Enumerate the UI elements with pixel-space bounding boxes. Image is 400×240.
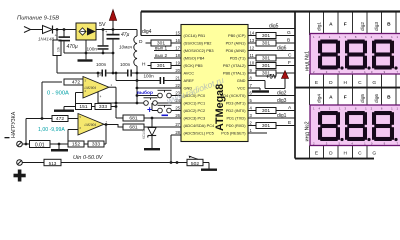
capacitor C1 470µ [63, 30, 65, 37]
button SB1 выбор [137, 95, 158, 97]
op-amp DA2.2 LM358 [78, 114, 104, 136]
wire Uin long [61, 162, 187, 164]
button SB2 plus [98, 102, 144, 104]
svg-text:H: H [142, 62, 146, 68]
button SB3 minus [151, 103, 153, 111]
svg-text:инд №2: инд №2 [305, 121, 311, 141]
ground at MCU VCC pin [257, 87, 261, 89]
svg-text:B: B [387, 95, 391, 101]
voltage regulator DA1 5V stabilizer [76, 23, 96, 40]
svg-text:PB7 (XTAL2): PB7 (XTAL2) [223, 63, 246, 68]
pin 3 stub right [248, 117, 257, 119]
plus mark of load terminal [18, 170, 22, 182]
pin 20 stub left [173, 72, 182, 74]
ground at shunt [58, 144, 60, 149]
node after diode [56, 28, 59, 31]
resistor R3 151 [76, 104, 92, 110]
svg-text:100n: 100n [87, 47, 98, 52]
pin 10 stub right [248, 65, 257, 67]
diode VD1 1N4148 [43, 26, 53, 34]
net dig2 wire [257, 95, 296, 97]
resistor R11 681 [116, 117, 123, 119]
svg-text:D: D [329, 151, 333, 157]
display1 digit 3 [374, 40, 391, 44]
svg-text:301: 301 [262, 41, 270, 47]
net вых 2 stub [154, 57, 181, 59]
bottom bus (bold) [295, 158, 374, 160]
svg-text:10k: 10k [56, 46, 60, 52]
svg-text:PC6 (RESET): PC6 (RESET) [221, 131, 246, 136]
display2 digit 2 [347, 111, 364, 115]
svg-text:1,00 -9,99А: 1,00 -9,99А [38, 127, 65, 133]
svg-text:(ADC3) PC3: (ADC3) PC3 [184, 116, 206, 121]
pin 5 stub right [248, 102, 257, 104]
pin 27 stub left [173, 126, 182, 128]
ground of op-amp1 gain network [64, 106, 76, 108]
svg-text:15: 15 [175, 30, 180, 35]
pin 1 stub right [248, 132, 257, 134]
svg-text:11: 11 [250, 53, 255, 58]
svg-text:dig3: dig3 [277, 98, 287, 104]
svg-text:dig5: dig5 [269, 24, 279, 30]
svg-text:A: A [329, 22, 333, 28]
svg-text:301: 301 [262, 33, 270, 39]
svg-text:PD4 (XCK/T0): PD4 (XCK/T0) [221, 93, 247, 98]
zener diode VD2 [151, 118, 153, 128]
svg-text:17: 17 [175, 45, 180, 50]
svg-text:H: H [343, 80, 347, 86]
top rail thick wire [141, 10, 400, 12]
svg-text:H: H [343, 151, 347, 157]
svg-text:PB0 (ICP): PB0 (ICP) [228, 33, 246, 38]
svg-text:AREF: AREF [184, 78, 195, 83]
svg-text:22: 22 [175, 83, 180, 88]
display1 digit 1 [320, 40, 337, 44]
pin 9 stub right [248, 72, 257, 74]
svg-text:(SS/OC1B) PB2: (SS/OC1B) PB2 [184, 41, 212, 46]
pin 12 stub right [248, 50, 257, 52]
pin 24 stub left [173, 102, 182, 104]
svg-text:301: 301 [262, 56, 270, 62]
svg-text:301: 301 [262, 108, 270, 114]
svg-text:dig1: dig1 [317, 22, 323, 31]
wire op-amp1 output to feedback [109, 86, 116, 88]
net dig3 wire [257, 102, 296, 104]
display2 digit 3 [374, 111, 391, 115]
svg-text:PD1 (TXD): PD1 (TXD) [226, 116, 246, 121]
svg-text:(MISO) PB4: (MISO) PB4 [184, 56, 206, 61]
wire trimmer to ground [203, 162, 209, 164]
inductor L1 10мгн [136, 30, 138, 37]
svg-text:681: 681 [129, 125, 137, 131]
capacitor C5 100n (AVCC) [127, 70, 129, 77]
pin 22 stub left [173, 87, 182, 89]
resistor R14 301 (segment H) [148, 65, 152, 67]
power net 5V arrow [112, 21, 114, 30]
op-amp1 power stub bottom [97, 92, 99, 103]
net dig1 wire [257, 117, 296, 119]
svg-text:D: D [139, 39, 143, 45]
svg-text:dig3: dig3 [374, 22, 380, 31]
capacitor C4 100n (op-amp supply) [102, 70, 104, 77]
wire terminal to shunt [22, 143, 29, 145]
svg-text:инд №1: инд №1 [305, 51, 311, 71]
svg-text:вых 2: вых 2 [155, 53, 168, 58]
segment bus between displays (bold) [295, 87, 400, 89]
pin 15 stub left [173, 35, 182, 37]
svg-text:G: G [372, 80, 376, 86]
svg-text:(SCK) PB5: (SCK) PB5 [184, 63, 203, 68]
svg-text:0 - 900А: 0 - 900А [47, 91, 69, 97]
pin 8 stub right [248, 80, 257, 82]
wire op-amp1 inverting input loop [76, 92, 84, 94]
svg-text:100n: 100n [120, 62, 131, 67]
svg-text:100n: 100n [96, 62, 107, 67]
svg-text:F: F [344, 95, 347, 101]
svg-text:PD0 (RXD): PD0 (RXD) [226, 123, 246, 128]
svg-text:G: G [372, 151, 376, 157]
svg-text:F: F [344, 22, 347, 28]
display1 digit 2 [347, 40, 364, 44]
svg-text:КС147: КС147 [142, 129, 146, 139]
display mid pin stubs [309, 74, 311, 105]
resistor R17 301 (segment C) [256, 55, 276, 61]
svg-text:E: E [315, 80, 318, 86]
resistor R2 472 [64, 79, 88, 85]
pin 21 stub left [173, 80, 182, 82]
wire op-amp2 output [104, 125, 123, 128]
pin 4 stub right [248, 110, 257, 112]
display HG2 (инд №2) [310, 105, 400, 146]
svg-text:152: 152 [72, 142, 80, 148]
wire gnd bus at x137 [136, 73, 138, 103]
svg-text:(ADC1) PC1: (ADC1) PC1 [184, 101, 206, 106]
ground rail of power section [64, 52, 113, 54]
capacitor C3 47µ electrolytic [112, 30, 114, 35]
svg-text:E: E [315, 151, 318, 157]
svg-text:PB6 (XTAL1): PB6 (XTAL1) [223, 71, 246, 76]
op-amp DA2.1 LM358 [83, 77, 109, 99]
wire input to diode [31, 29, 43, 31]
svg-text:151: 151 [79, 104, 87, 110]
svg-text:dig2: dig2 [277, 91, 287, 97]
svg-text:470µ: 470µ [67, 44, 78, 50]
svg-text:472: 472 [56, 116, 64, 122]
svg-text:26: 26 [175, 113, 180, 118]
svg-text:47µ: 47µ [121, 32, 130, 38]
pin 25 stub left [173, 110, 182, 112]
pin 14 stub right [248, 35, 257, 37]
wire pin28 to Uin divider [171, 134, 181, 136]
svg-text:472: 472 [72, 80, 80, 86]
power +5V arrow at MCU [257, 80, 266, 82]
svg-text:20: 20 [175, 68, 180, 73]
svg-text:PD2 (INT0): PD2 (INT0) [226, 108, 246, 113]
terminal X2 (load minus) [17, 141, 23, 147]
label minus blue [162, 115, 169, 117]
svg-text:333: 333 [92, 142, 100, 148]
resistor R6 152 [68, 141, 84, 147]
svg-text:A: A [329, 95, 333, 101]
resistor R12 681 [123, 124, 144, 130]
ground of regulator [85, 40, 87, 59]
input connector X1 arrow [24, 27, 31, 33]
wire op-amp2 inverting input loop [68, 129, 78, 131]
pin 2 stub right [248, 125, 257, 127]
svg-text:502: 502 [191, 161, 199, 167]
pin 1 reset stub extension [257, 132, 268, 134]
svg-text:PD3 (INT1): PD3 (INT1) [226, 101, 246, 106]
wire 5V rail [96, 29, 137, 31]
svg-text:28: 28 [175, 130, 180, 135]
svg-text:C: C [358, 151, 362, 157]
resistor R13 301 (segment D) [146, 42, 152, 44]
minus mark of load terminal [5, 137, 10, 138]
svg-text:301: 301 [262, 123, 270, 129]
pin 7 stub right [248, 87, 257, 89]
vertical bus to displays [294, 12, 296, 159]
svg-text:(ADC4/SDA) PC4: (ADC4/SDA) PC4 [184, 123, 216, 128]
wire between R6 R7 [84, 143, 88, 145]
svg-text:Питание 9-15В: Питание 9-15В [17, 16, 59, 22]
svg-text:(ADC2) PC2: (ADC2) PC2 [184, 108, 206, 113]
resistor R20 301 (segment A) [256, 108, 276, 114]
svg-text:LM2904: LM2904 [85, 123, 97, 127]
capacitor C2 100n [102, 30, 104, 46]
svg-text:PD5 (T1): PD5 (T1) [230, 56, 246, 61]
resistor R18 301 (segment F) [256, 63, 276, 69]
pin 16 stub left [173, 42, 182, 44]
pin 6 stub right [248, 95, 257, 97]
resistor R1 vertical [56, 30, 58, 41]
svg-text:14: 14 [250, 30, 255, 35]
svg-text:10мгн: 10мгн [119, 45, 133, 50]
svg-text:B: B [287, 38, 290, 44]
svg-text:dig2: dig2 [360, 22, 366, 31]
svg-text:1N4148: 1N4148 [38, 37, 55, 42]
shunt sense wire jog down to terminal [25, 119, 27, 145]
net dig5 wire [248, 28, 295, 30]
svg-text:100n: 100n [144, 74, 155, 79]
svg-text:333: 333 [99, 104, 107, 110]
svg-text:(MOSI/OC2) PB3: (MOSI/OC2) PB3 [184, 48, 214, 53]
op-amp supply row from R1 [57, 72, 102, 74]
svg-text:0.01: 0.01 [35, 142, 45, 148]
svg-text:LM2904: LM2904 [85, 86, 97, 90]
wire between R3 R4 [92, 106, 96, 108]
svg-text:Uin 0-50.0V: Uin 0-50.0V [73, 155, 104, 161]
resistor R16 301 (segment B) [256, 40, 276, 46]
wire terminal to R9 [22, 162, 44, 164]
svg-text:13: 13 [250, 38, 255, 43]
svg-text:вых 1: вых 1 [155, 46, 168, 51]
svg-text:AVCC: AVCC [184, 71, 195, 76]
display2 digit 1 [320, 111, 337, 115]
svg-text:301: 301 [157, 63, 165, 69]
svg-text:ATMega8: ATMega8 [214, 84, 226, 131]
svg-text:dig6: dig6 [277, 46, 287, 52]
display2 bottom pin stubs [309, 146, 311, 159]
svg-text:G: G [287, 30, 291, 36]
pin 17 stub left [173, 50, 182, 52]
shunt resistor R8 0.01 [30, 141, 51, 148]
svg-text:681: 681 [129, 116, 137, 122]
svg-text:(OC1A) PB1: (OC1A) PB1 [184, 33, 206, 38]
display1 top pin stubs [309, 12, 311, 36]
pin 19 stub left [173, 65, 182, 67]
svg-text:GND: GND [237, 78, 246, 83]
wire shunt sense vertical [41, 82, 43, 119]
trimmer resistor R10 502 [187, 159, 203, 165]
resistor R4 333 [95, 104, 111, 110]
svg-text:10: 10 [250, 60, 255, 65]
svg-text:B: B [387, 22, 391, 28]
terminal X3 (load plus) [17, 160, 23, 166]
net dig4 wire to top rail [140, 12, 142, 36]
svg-text:12: 12 [250, 45, 255, 50]
pin 23 stub left [173, 95, 182, 97]
svg-text:PD7 (AIN1): PD7 (AIN1) [226, 41, 247, 46]
pin 28 stub left [173, 134, 182, 136]
svg-text:dig4: dig4 [142, 29, 152, 35]
resistor R9 513 [44, 159, 61, 165]
svg-text:18: 18 [175, 53, 180, 58]
svg-text:301: 301 [262, 63, 270, 69]
svg-text:dig6: dig6 [374, 94, 380, 103]
resistor R19 301 (segment E) [256, 70, 276, 76]
svg-text:PD6 (AIN0): PD6 (AIN0) [226, 48, 247, 53]
svg-text:+: + [147, 105, 152, 115]
resistor R7 333 [88, 141, 104, 147]
svg-text:5V: 5V [99, 22, 106, 28]
svg-text:E: E [288, 120, 291, 126]
svg-text:F: F [288, 60, 291, 66]
resistor R21 301 (segment E2) [256, 123, 276, 129]
svg-text:C: C [358, 80, 362, 86]
pin 26 stub left [173, 117, 182, 119]
svg-text:dig4: dig4 [317, 94, 323, 103]
wire GND pin22 [137, 87, 181, 89]
svg-text:dig1: dig1 [277, 113, 287, 119]
pin 13 stub right [248, 42, 257, 44]
wire shunt to gain network [50, 143, 68, 145]
net dig6 wire [257, 50, 296, 52]
pin 18 stub left [173, 57, 182, 59]
resistor R5 472 [41, 117, 44, 120]
display HG1 (инд №1) [310, 34, 400, 75]
svg-text:НАГРУЗКА: НАГРУЗКА [11, 111, 17, 138]
net вых 1 stub [154, 50, 181, 52]
svg-text:19: 19 [175, 60, 180, 65]
wire diode to regulator [53, 29, 77, 31]
svg-text:выбор: выбор [137, 89, 153, 96]
svg-text:(ADC5/SCL) PC5: (ADC5/SCL) PC5 [184, 131, 214, 136]
wire AVCC to AREF [115, 73, 117, 81]
svg-text:21: 21 [175, 75, 180, 80]
svg-text:VCC: VCC [237, 86, 245, 91]
svg-text:513: 513 [49, 161, 57, 166]
resistor R15 301 (segment G) [255, 35, 258, 37]
svg-text:27: 27 [175, 122, 180, 127]
svg-text:25: 25 [175, 105, 180, 110]
svg-text:+5V: +5V [266, 75, 277, 81]
svg-text:dig5: dig5 [360, 94, 366, 103]
capacitor C6 100n (AREF) [116, 80, 160, 82]
svg-text:C: C [288, 53, 292, 59]
pin 11 stub right [248, 57, 257, 59]
op-amp to MCU section: chip body ATMega8 [181, 25, 248, 142]
svg-text:D: D [329, 80, 333, 86]
svg-text:16: 16 [175, 38, 180, 43]
